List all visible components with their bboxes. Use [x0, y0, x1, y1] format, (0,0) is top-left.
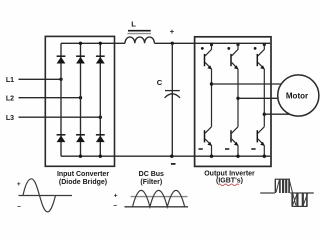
- wire bridge-leg-2: [80, 43, 82, 156]
- wire bridge-leg-1: [60, 43, 62, 156]
- svg-text:DC Bus: DC Bus: [139, 171, 164, 178]
- node top-bus-d3: [99, 42, 102, 45]
- svg-text:+: +: [17, 181, 21, 188]
- svg-text:Output Inverter: Output Inverter: [204, 171, 255, 178]
- wire inverter leg2 mid: [237, 69, 239, 127]
- node leg2-output: [236, 97, 239, 100]
- svg-text:+: +: [114, 193, 118, 200]
- wire top DC bus: [61, 42, 125, 44]
- node L1-junction: [59, 78, 62, 81]
- wire inverter leg3 bottom: [263, 145, 265, 156]
- waveform dc bus: dc level line: [131, 196, 188, 198]
- svg-text:L3: L3: [6, 115, 14, 122]
- diode D6: [96, 135, 105, 142]
- transistor Q5 (bottom IGBT leg 2): [225, 127, 238, 149]
- wire L3: [19, 116, 101, 118]
- svg-text:Input Converter: Input Converter: [57, 171, 109, 178]
- output inverter box: [195, 37, 271, 167]
- red squiggle under IGBT's: [218, 184, 239, 186]
- wire motor phase W: [264, 113, 292, 115]
- svg-text:L2: L2: [6, 95, 14, 102]
- svg-text:(Diode Bridge): (Diode Bridge): [59, 179, 107, 186]
- wire motor phase V: [238, 97, 281, 99]
- waveform dc bus: rectified humps: [133, 190, 185, 206]
- node leg1-emitter: [210, 155, 213, 158]
- waveform input sine: curve: [23, 179, 56, 212]
- node bottom-bus-d6: [99, 155, 102, 158]
- transistor Q6 (bottom IGBT leg 3): [251, 127, 264, 149]
- diode D3: [96, 56, 105, 63]
- node bottom-bus-d5: [79, 155, 82, 158]
- svg-text:Motor: Motor: [286, 92, 308, 101]
- svg-text:−: −: [113, 203, 117, 210]
- node leg2-emitter: [236, 155, 239, 158]
- svg-text:(Filter): (Filter): [140, 179, 162, 186]
- waveform dc bus: baseline: [125, 206, 189, 208]
- transistor Q2 (top IGBT leg 2): [227, 43, 239, 70]
- transistor Q1 (top IGBT leg 1): [201, 43, 213, 70]
- wire L2: [19, 97, 81, 99]
- waveform pwm: center line left: [260, 192, 275, 194]
- input converter box: [45, 36, 114, 166]
- waveform pwm: negative pulses: [292, 193, 308, 206]
- label minus (dc bus): [171, 163, 176, 165]
- diode D5: [76, 135, 85, 142]
- wire inverter leg3 mid: [263, 69, 265, 127]
- waveform pwm: positive pulses: [275, 179, 296, 205]
- wire inductor to inverter (+ bus): [154, 42, 270, 44]
- diode D4: [57, 135, 66, 142]
- node leg1-output: [210, 82, 213, 85]
- svg-text:L1: L1: [6, 77, 14, 84]
- transistor Q4 (bottom IGBT leg 1): [199, 127, 212, 149]
- wire bottom DC bus: [61, 155, 270, 157]
- svg-text:−: −: [17, 204, 21, 211]
- node cap-bottom: [170, 155, 173, 158]
- capacitor C: [165, 43, 180, 156]
- node leg3-output: [263, 113, 266, 116]
- svg-text:L: L: [131, 20, 136, 29]
- transistor Q3 (top IGBT leg 3): [254, 43, 266, 70]
- wire inverter leg2 bottom: [237, 145, 239, 156]
- node L2-junction: [79, 96, 82, 99]
- node top-bus-d2: [79, 42, 82, 45]
- diode D1: [57, 56, 66, 63]
- waveform pwm: center line right: [290, 192, 314, 194]
- wire inverter leg1 mid: [211, 69, 213, 127]
- diode D2: [76, 56, 85, 63]
- svg-text:C: C: [157, 78, 163, 87]
- wire L1: [19, 78, 62, 80]
- inductor L: [125, 31, 154, 44]
- wire bridge-leg-3: [99, 43, 101, 156]
- motor M: [278, 75, 319, 116]
- waveform input sine: axis: [19, 195, 73, 197]
- svg-text:+: +: [170, 27, 175, 36]
- node leg3-emitter: [263, 155, 266, 158]
- wire inverter leg1 bottom: [211, 145, 213, 156]
- wire motor phase U: [212, 83, 285, 85]
- node L3-junction: [99, 116, 102, 119]
- node cap-top: [171, 42, 174, 45]
